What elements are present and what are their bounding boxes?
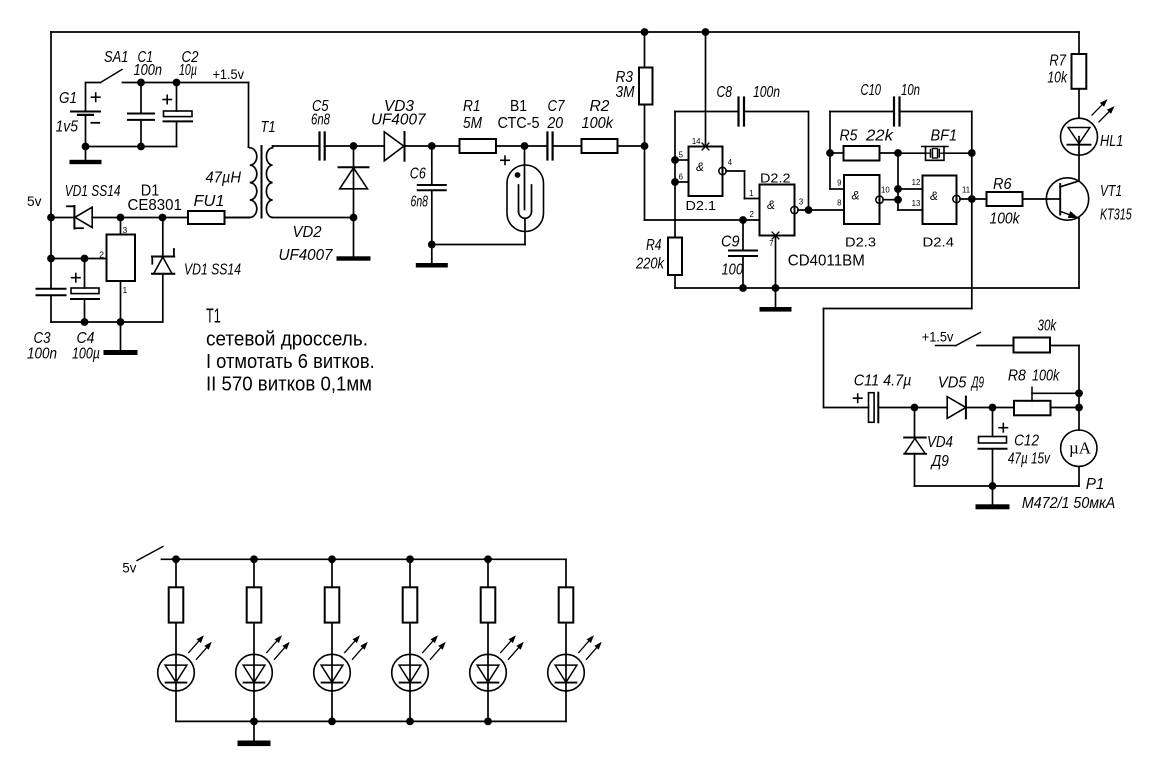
- svg-text:11: 11: [962, 185, 970, 194]
- svg-text:8: 8: [837, 199, 841, 208]
- svg-text:СТС-5: СТС-5: [498, 115, 540, 132]
- svg-text:2: 2: [99, 250, 104, 260]
- svg-text:BF1: BF1: [931, 128, 958, 145]
- svg-text:C3: C3: [34, 330, 51, 347]
- svg-text:5M: 5M: [463, 115, 482, 132]
- svg-text:3M: 3M: [616, 84, 635, 101]
- svg-text:47µ 15v: 47µ 15v: [1008, 451, 1051, 468]
- svg-text:3: 3: [799, 198, 803, 207]
- svg-text:4: 4: [728, 158, 733, 167]
- svg-text:VD2: VD2: [293, 224, 322, 241]
- svg-text:1: 1: [749, 189, 753, 198]
- svg-text:UF4007: UF4007: [279, 247, 334, 264]
- svg-text:SA1: SA1: [104, 49, 129, 66]
- svg-text:1v5: 1v5: [56, 119, 79, 136]
- svg-text:D2.4: D2.4: [923, 235, 955, 250]
- svg-text:9: 9: [837, 179, 841, 188]
- svg-text:100µ: 100µ: [72, 346, 100, 363]
- svg-text:C8: C8: [717, 84, 733, 101]
- svg-text:100: 100: [722, 262, 744, 279]
- svg-text:10: 10: [881, 186, 890, 195]
- svg-text:12: 12: [912, 178, 921, 187]
- svg-text:C9: C9: [721, 234, 740, 251]
- svg-text:C10: C10: [861, 82, 882, 99]
- svg-text:6n8: 6n8: [411, 194, 429, 211]
- svg-text:VD1 SS14: VD1 SS14: [184, 262, 241, 279]
- svg-text:C12: C12: [1014, 433, 1039, 450]
- svg-text:&: &: [767, 198, 775, 212]
- svg-text:P1: P1: [1086, 476, 1105, 493]
- svg-text:М472/1 50мкА: М472/1 50мкА: [1022, 495, 1115, 512]
- svg-text:C7: C7: [548, 98, 566, 115]
- svg-text:10µ: 10µ: [179, 62, 197, 79]
- svg-text:5v: 5v: [122, 560, 136, 576]
- svg-text:&: &: [696, 160, 704, 174]
- svg-text:T1: T1: [206, 306, 221, 328]
- svg-text:R7: R7: [1049, 53, 1067, 70]
- svg-text:30k: 30k: [1038, 318, 1058, 335]
- svg-text:C4: C4: [77, 330, 95, 347]
- svg-text:UF4007: UF4007: [371, 112, 427, 129]
- svg-text:Д9: Д9: [930, 453, 949, 470]
- svg-text:22k: 22k: [865, 128, 894, 145]
- svg-text:R2: R2: [590, 98, 610, 115]
- svg-text:CD4011BM: CD4011BM: [788, 253, 865, 270]
- svg-text:R6: R6: [993, 176, 1012, 193]
- svg-text:KT315: KT315: [1100, 207, 1132, 224]
- svg-text:5v: 5v: [27, 193, 42, 209]
- svg-text:R4: R4: [646, 237, 662, 254]
- svg-text:R5: R5: [840, 128, 858, 145]
- svg-text:20: 20: [547, 115, 564, 132]
- svg-text:R1: R1: [463, 98, 481, 115]
- svg-text:µA: µA: [1069, 439, 1092, 458]
- svg-text:5: 5: [679, 151, 684, 160]
- svg-text:VD4: VD4: [927, 434, 953, 451]
- svg-text:100n: 100n: [753, 84, 780, 101]
- svg-text:2: 2: [749, 210, 753, 219]
- svg-text:I отмотать 6 витков.: I отмотать 6 витков.: [206, 351, 375, 373]
- svg-text:VT1: VT1: [1100, 183, 1122, 200]
- svg-text:Д9: Д9: [970, 375, 984, 392]
- svg-text:100k: 100k: [582, 115, 615, 132]
- svg-text:C6: C6: [410, 166, 426, 183]
- svg-text:D2.2: D2.2: [760, 171, 791, 186]
- svg-text:10n: 10n: [901, 82, 920, 99]
- svg-text:6: 6: [679, 173, 683, 182]
- svg-text:13: 13: [912, 199, 921, 208]
- svg-text:100k: 100k: [1032, 367, 1060, 384]
- svg-text:G1: G1: [59, 90, 77, 107]
- svg-text:II 570 витков 0,1мм: II 570 витков 0,1мм: [206, 374, 372, 396]
- svg-text:D2.3: D2.3: [845, 235, 876, 250]
- svg-text:100k: 100k: [990, 211, 1021, 228]
- svg-text:VD1 SS14: VD1 SS14: [65, 183, 121, 200]
- svg-text:R8: R8: [1008, 367, 1026, 384]
- svg-text:&: &: [851, 189, 859, 203]
- svg-text:10k: 10k: [1047, 70, 1068, 87]
- svg-text:7: 7: [769, 239, 773, 248]
- svg-text:47µH: 47µH: [206, 170, 242, 187]
- svg-text:C11 4.7µ: C11 4.7µ: [854, 373, 912, 390]
- svg-text:+1.5v: +1.5v: [213, 66, 245, 82]
- svg-text:D2.1: D2.1: [686, 198, 717, 213]
- svg-text:220k: 220k: [635, 256, 665, 273]
- svg-text:HL1: HL1: [1100, 133, 1123, 150]
- svg-text:100n: 100n: [134, 62, 163, 79]
- svg-text:+1.5v: +1.5v: [922, 328, 954, 344]
- svg-text:T1: T1: [261, 119, 276, 136]
- svg-text:сетевой дроссель.: сетевой дроссель.: [206, 329, 368, 351]
- svg-text:B1: B1: [510, 98, 527, 115]
- svg-text:100n: 100n: [27, 346, 57, 363]
- svg-text:1: 1: [123, 285, 128, 295]
- svg-text:&: &: [930, 189, 938, 203]
- svg-text:VD5: VD5: [938, 375, 967, 392]
- svg-text:14: 14: [692, 137, 701, 146]
- svg-text:CE8301: CE8301: [128, 197, 182, 214]
- svg-text:FU1: FU1: [194, 193, 225, 210]
- svg-text:6n8: 6n8: [311, 112, 330, 129]
- svg-text:3: 3: [123, 225, 128, 235]
